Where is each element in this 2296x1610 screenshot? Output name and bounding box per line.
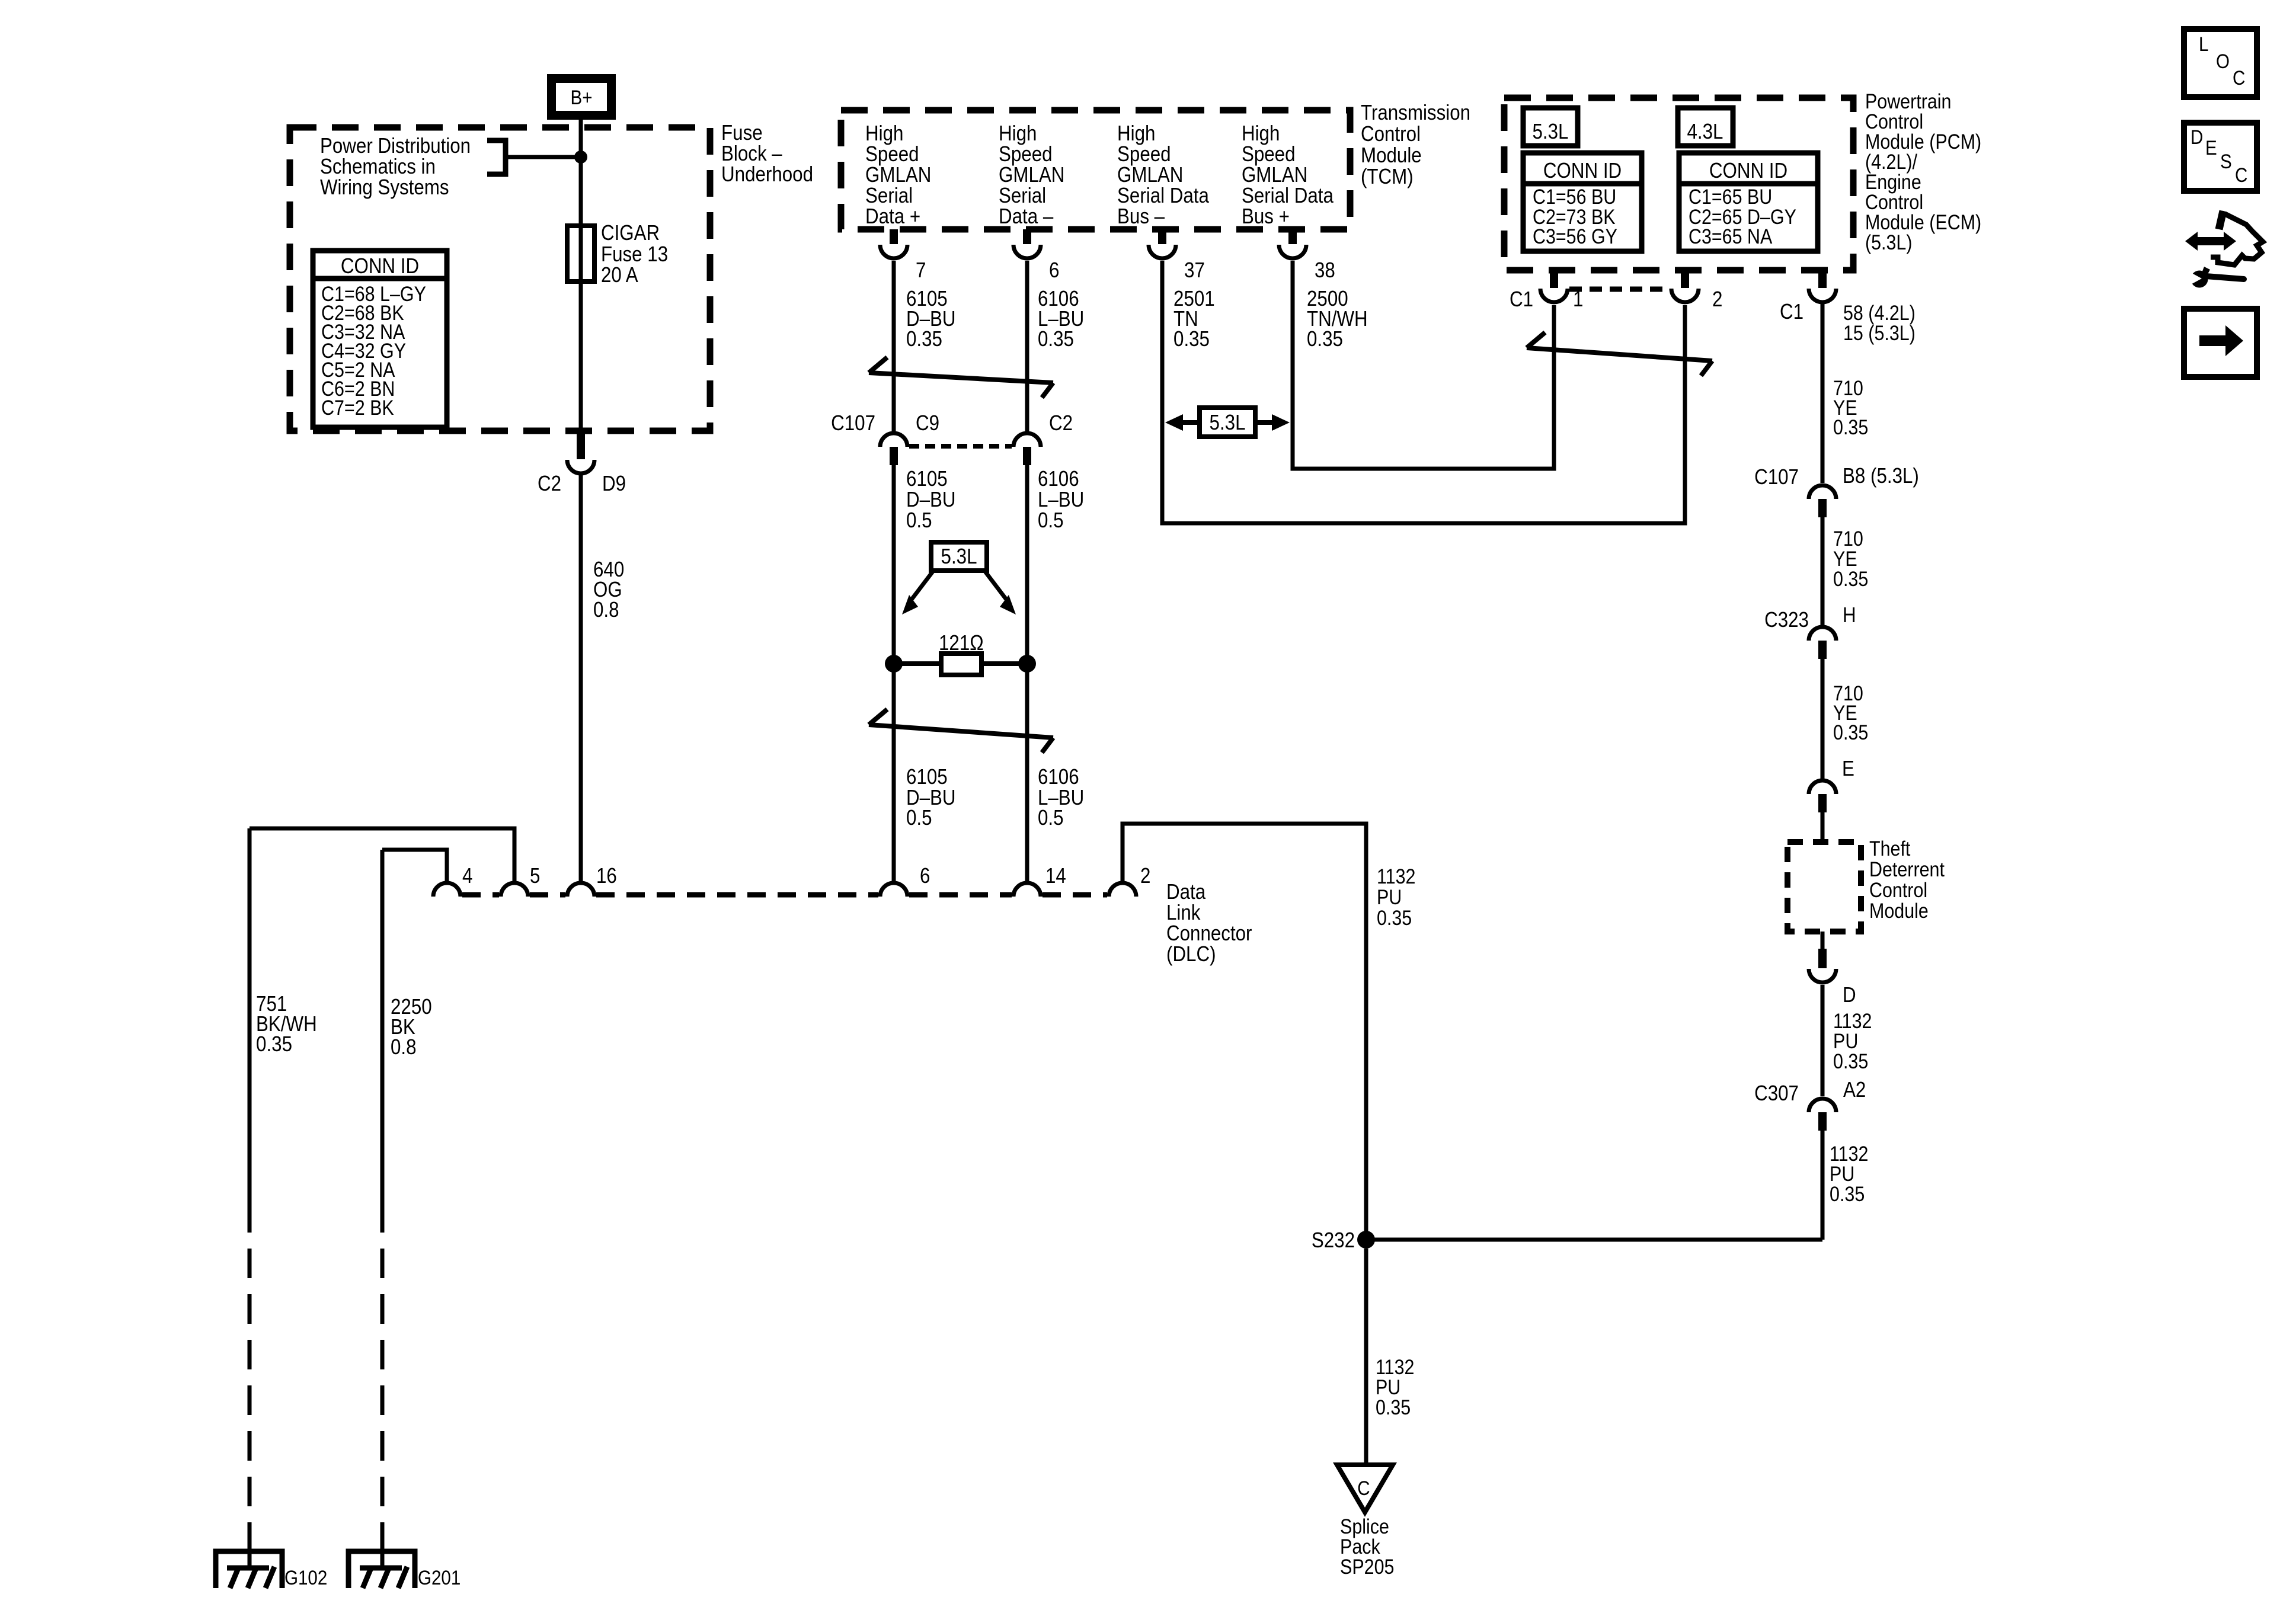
svg-text:D9: D9 (602, 472, 626, 496)
wire 6106 upper (1025, 261, 1029, 431)
svg-text:0.5: 0.5 (906, 806, 932, 830)
svg-text:0.5: 0.5 (906, 508, 932, 533)
wire 2501 TN (1162, 261, 1685, 523)
svg-text:C107: C107 (1754, 465, 1799, 489)
label E (1842, 757, 1854, 781)
wire to pin 5 from ground 751 (250, 828, 514, 881)
svg-text:B8 (5.3L): B8 (5.3L) (1843, 464, 1919, 488)
label wire 6105 low (906, 765, 956, 830)
connector C2 D9 at fuse block (567, 431, 594, 473)
PCM label (1865, 89, 1981, 254)
dashed link pin1 pin2 (1569, 287, 1670, 292)
label pin 14 (1045, 864, 1066, 888)
label B8 (1843, 464, 1919, 488)
label wire 2500 (1307, 287, 1368, 351)
svg-text:C323: C323 (1764, 608, 1809, 632)
svg-text:14: 14 (1045, 864, 1066, 888)
TCM pin text col4 (1242, 121, 1334, 229)
fuse CIGAR Fuse 13 20A symbol (567, 226, 594, 281)
label pin 7 (916, 258, 926, 283)
svg-text:D: D (1843, 983, 1856, 1007)
wire 2250 BK dashed part (380, 1203, 385, 1568)
svg-text:6: 6 (920, 864, 930, 888)
label 710 YE 3 (1833, 681, 1868, 744)
label 710 YE 2 (1833, 527, 1868, 590)
svg-text:G102: G102 (284, 1566, 327, 1589)
junction dot 6105 (885, 655, 903, 673)
svg-text:S232: S232 (1312, 1228, 1355, 1253)
label 640 OG 0.8 (593, 558, 624, 622)
svg-text:S: S (2220, 150, 2232, 172)
svg-text:6: 6 (1049, 258, 1059, 283)
TCM label (1361, 101, 1470, 189)
svg-text:0.35: 0.35 (1038, 327, 1074, 351)
svg-text:Bus –: Bus – (1117, 204, 1165, 229)
wire 1132 PU seg1 (1821, 985, 1825, 1096)
label wire 6105 mid (906, 467, 956, 533)
wire 640 OG 0.8 (579, 475, 583, 881)
svg-text:15 (5.3L): 15 (5.3L) (1843, 321, 1916, 344)
label 58 15 (1843, 301, 1916, 344)
svg-text:0.35: 0.35 (1833, 567, 1868, 590)
svg-text:C9: C9 (916, 411, 939, 436)
svg-text:Deterrent: Deterrent (1869, 857, 1945, 881)
svg-text:(5.3L): (5.3L) (1865, 231, 1913, 254)
label pin 4 (462, 864, 472, 888)
label pin 6 (920, 864, 930, 888)
connector C107 C9 (880, 433, 907, 465)
svg-text:2: 2 (1140, 864, 1150, 888)
label C107 (831, 411, 875, 436)
svg-text:C1: C1 (1510, 287, 1533, 312)
svg-text:Wiring Systems: Wiring Systems (320, 175, 449, 200)
svg-text:7: 7 (916, 258, 926, 283)
svg-text:20 A: 20 A (601, 263, 638, 287)
label 1132 PU bottom (1376, 1355, 1414, 1419)
label wire 6105 top (906, 287, 956, 351)
wire 751 BK/WH solid part (248, 828, 252, 1203)
PCM 4.3L tag box (1678, 108, 1733, 146)
svg-text:4.3L: 4.3L (1687, 120, 1723, 144)
theft deterrent dashed box (1787, 842, 1861, 932)
svg-text:0.35: 0.35 (1833, 415, 1868, 438)
PCM pin C1 right connector (1809, 270, 1836, 302)
svg-text:0.5: 0.5 (1038, 508, 1064, 533)
svg-text:5: 5 (530, 864, 540, 888)
callout 5.3L box with arrows (902, 542, 1016, 614)
label 2250 BK 0.8 (391, 995, 432, 1060)
theft deterrent label (1869, 837, 1945, 922)
label C2b (1049, 411, 1073, 436)
svg-text:121Ω: 121Ω (939, 631, 984, 655)
wire B+ down to fuse (579, 120, 583, 226)
svg-text:C1: C1 (1780, 300, 1803, 324)
ground G102 symbol (216, 1551, 282, 1588)
fuse block - underhood dashed box (290, 127, 710, 431)
svg-text:2: 2 (1712, 287, 1722, 312)
CONN ID table fuse block (313, 251, 447, 427)
bracket for power distribution note (487, 140, 506, 174)
svg-text:H: H (1843, 603, 1856, 628)
svg-text:Control: Control (1869, 878, 1927, 901)
fuse block label (721, 121, 813, 187)
svg-text:C2: C2 (1049, 411, 1073, 436)
DLC pin 2 connector (1109, 883, 1136, 897)
label C9 (916, 411, 939, 436)
svg-text:Bus +: Bus + (1242, 204, 1290, 229)
PCM dashed box (1504, 98, 1853, 270)
TCM pin text col1 (865, 121, 931, 229)
wire to pin 4 from ground 2250 (382, 850, 447, 881)
resistor 121 ohm (894, 654, 1027, 675)
label wire 6106 top (1038, 287, 1084, 351)
svg-text:16: 16 (596, 864, 617, 888)
wire from bracket to B+ node (506, 155, 580, 159)
label 1132 PU riser (1377, 865, 1415, 929)
svg-text:PU: PU (1377, 885, 1402, 908)
label C1 pcm (1510, 287, 1533, 312)
svg-text:0.35: 0.35 (1377, 906, 1412, 929)
DLC pin 6 connector (880, 883, 907, 897)
svg-text:D: D (2191, 126, 2203, 148)
svg-text:C3=65 NA: C3=65 NA (1689, 225, 1772, 248)
label D (1843, 983, 1856, 1007)
svg-text:0.35: 0.35 (1833, 721, 1868, 744)
label splice pack SP205 (1340, 1515, 1394, 1578)
connector C107 B8 (1809, 485, 1836, 517)
icon vehicle with wrench (2185, 211, 2263, 288)
label C323 (1764, 608, 1809, 632)
DLC label (1166, 880, 1252, 966)
svg-text:0.35: 0.35 (906, 327, 942, 351)
connector E (1809, 780, 1836, 812)
crossing symbol upper (869, 357, 1053, 398)
CONN ID table PCM 4.3L (1679, 153, 1818, 251)
TCM pin 37 connector (1149, 229, 1176, 258)
svg-text:0.5: 0.5 (1038, 806, 1064, 830)
label pin 2 (1712, 287, 1722, 312)
wire 710 YE seg1 (1821, 304, 1825, 483)
TCM pin 38 connector (1279, 229, 1306, 258)
wire S232 horizontal (1366, 1238, 1822, 1242)
wire 2250 BK solid part (380, 850, 385, 1203)
label C2 (538, 472, 561, 496)
svg-text:5.3L: 5.3L (1210, 411, 1246, 435)
connector D cup (1809, 949, 1836, 982)
label 751 BK/WH 0.35 (256, 992, 317, 1057)
connector C323 H (1809, 627, 1836, 659)
fuse label (601, 221, 668, 287)
svg-text:E: E (2205, 136, 2217, 159)
svg-text:A2: A2 (1843, 1078, 1866, 1102)
svg-text:B+: B+ (571, 86, 593, 108)
crossing symbol pcm (1527, 332, 1712, 376)
crossing symbol lower (869, 709, 1053, 753)
wire below theft module (1821, 932, 1825, 950)
junction dot 6106 (1018, 655, 1036, 673)
svg-text:C3=56 GY: C3=56 GY (1533, 225, 1617, 248)
label 1132 PU right2 (1830, 1142, 1868, 1205)
wire S232 to splice (1364, 1249, 1368, 1465)
label G102 (284, 1566, 327, 1589)
svg-text:Module: Module (1869, 899, 1929, 922)
svg-text:(DLC): (DLC) (1166, 942, 1216, 966)
wire 2500 TN/WH (1293, 261, 1554, 469)
svg-text:CONN ID: CONN ID (1709, 159, 1787, 183)
label pin 6 tcm (1049, 258, 1059, 283)
svg-text:0.35: 0.35 (1833, 1049, 1868, 1073)
wire 751 BK/WH dashed part (248, 1203, 252, 1568)
svg-text:0.35: 0.35 (1307, 327, 1343, 351)
svg-text:SP205: SP205 (1340, 1555, 1394, 1578)
svg-text:L: L (2199, 33, 2208, 55)
svg-text:Module: Module (1361, 143, 1422, 168)
PCM 5.3L tag box (1523, 108, 1578, 146)
connector C307 A2 (1809, 1099, 1836, 1131)
label G201 (418, 1566, 461, 1589)
svg-text:C107: C107 (831, 411, 875, 436)
DLC pin 14 connector (1013, 883, 1041, 897)
icon DESC box (2184, 123, 2257, 191)
CONN ID table PCM 5.3L (1523, 153, 1642, 251)
label S232 (1312, 1228, 1355, 1253)
svg-text:Control: Control (1361, 122, 1421, 146)
TCM pin text col2 (999, 121, 1064, 229)
TCM pin 7 connector (880, 229, 907, 258)
TCM pin 6 connector (1013, 229, 1041, 258)
svg-text:5.3L: 5.3L (941, 545, 977, 569)
svg-text:Theft: Theft (1869, 837, 1910, 860)
label wire 2501 (1173, 287, 1215, 351)
wire DLC pin2 riser (1123, 824, 1366, 1240)
label pin 2 (1140, 864, 1150, 888)
TCM pin text col3 (1117, 121, 1209, 229)
svg-text:Data –: Data – (999, 204, 1053, 229)
svg-text:O: O (2216, 50, 2230, 72)
svg-text:37: 37 (1184, 258, 1205, 283)
svg-text:C: C (2235, 164, 2247, 186)
svg-text:Underhood: Underhood (721, 162, 813, 187)
svg-text:0.8: 0.8 (593, 598, 619, 622)
DLC pin 4 connector (433, 883, 461, 897)
svg-text:1: 1 (1573, 287, 1583, 312)
splice pack C triangle (1337, 1465, 1393, 1512)
PCM pin 2 connector (1671, 270, 1699, 302)
label 121 ohm (939, 631, 984, 655)
label pin 37 (1184, 258, 1205, 283)
svg-text:C7=2 BK: C7=2 BK (321, 396, 394, 419)
svg-text:CONN ID: CONN ID (341, 254, 419, 279)
wire 6105 upper (892, 261, 896, 431)
5.3L double arrow (1165, 408, 1290, 437)
label wire 6106 mid (1038, 467, 1084, 533)
wire 710 YE seg2 (1821, 516, 1825, 625)
wire 6105 mid (892, 465, 896, 881)
icon LOC box (2184, 29, 2257, 97)
B+ battery terminal box (552, 79, 612, 116)
PCM pin 1 connector (1540, 270, 1568, 302)
svg-text:G201: G201 (418, 1566, 461, 1589)
svg-text:C307: C307 (1754, 1081, 1799, 1106)
label 1132 PU right1 (1833, 1009, 1872, 1073)
svg-text:C2: C2 (538, 472, 561, 496)
label C1 right (1780, 300, 1803, 324)
wire 1132 PU seg2 (1821, 1129, 1825, 1240)
wire fuse to fuse block edge (579, 281, 583, 431)
svg-text:0.35: 0.35 (1830, 1182, 1865, 1205)
ground G201 symbol (348, 1551, 415, 1588)
DLC bus dashed line (462, 892, 1107, 898)
label C107 right (1754, 465, 1799, 489)
label pin 38 (1315, 258, 1335, 283)
wire 710 YE seg3 (1821, 656, 1825, 779)
svg-text:0.35: 0.35 (1173, 327, 1210, 351)
svg-text:Transmission: Transmission (1361, 101, 1470, 125)
svg-text:1132: 1132 (1377, 865, 1415, 888)
label 710 YE 1 (1833, 376, 1868, 438)
connector C107 C2 (1013, 433, 1041, 465)
label A2 (1843, 1078, 1866, 1102)
svg-text:C: C (1357, 1477, 1370, 1499)
label pin 1 (1573, 287, 1583, 312)
wire into theft module (1821, 810, 1825, 842)
TCM dashed box (841, 110, 1350, 229)
svg-text:38: 38 (1315, 258, 1335, 283)
svg-text:0.8: 0.8 (391, 1035, 417, 1060)
label pin 5 (530, 864, 540, 888)
label D9 (602, 472, 626, 496)
svg-text:5.3L: 5.3L (1533, 120, 1569, 144)
svg-text:C: C (2233, 66, 2245, 89)
icon arrow box (2184, 309, 2257, 377)
node junction dot on B+ feed (574, 151, 587, 164)
svg-text:0.35: 0.35 (1376, 1395, 1411, 1419)
svg-text:4: 4 (462, 864, 472, 888)
dashed link C9 C2 (909, 444, 1012, 449)
junction dot S232 (1357, 1231, 1375, 1249)
label C307 (1754, 1081, 1799, 1106)
label wire 6106 low (1038, 765, 1084, 830)
svg-text:CONN ID: CONN ID (1543, 159, 1622, 183)
svg-text:0.35: 0.35 (256, 1032, 292, 1057)
svg-text:Data +: Data + (865, 204, 920, 229)
power distribution note text (320, 134, 471, 200)
DLC pin 16 connector (567, 883, 594, 897)
label H (1843, 603, 1856, 628)
label pin 16 (596, 864, 617, 888)
DLC pin 5 connector (501, 883, 528, 897)
svg-text:E: E (1842, 757, 1854, 781)
svg-text:(TCM): (TCM) (1361, 165, 1414, 189)
wire 6106 mid (1025, 465, 1029, 881)
svg-text:CIGAR: CIGAR (601, 221, 660, 245)
